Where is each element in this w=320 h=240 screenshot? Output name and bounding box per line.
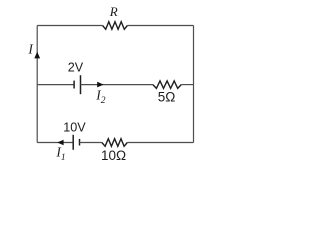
wire middle-right segment bbox=[181, 84, 193, 86]
resistor R bbox=[103, 22, 128, 30]
resistor 10 ohm bbox=[102, 139, 127, 147]
wire bottom-center segment bbox=[80, 142, 102, 144]
current arrow I (upward) bbox=[34, 52, 40, 59]
svg-text:I2: I2 bbox=[95, 87, 106, 106]
wire bottom-right segment bbox=[127, 142, 193, 144]
wire top-left segment bbox=[37, 25, 102, 27]
wire top-right segment bbox=[127, 25, 193, 27]
svg-text:10V: 10V bbox=[63, 121, 86, 135]
svg-text:10Ω: 10Ω bbox=[101, 148, 126, 163]
wire right side bbox=[193, 26, 195, 143]
wire left side bbox=[36, 26, 38, 143]
wire bottom-left segment bbox=[37, 142, 73, 144]
battery 2V short plate bbox=[73, 81, 75, 89]
current arrow I1 (leftward) bbox=[57, 140, 63, 146]
svg-text:I1: I1 bbox=[55, 144, 65, 163]
battery 10V short plate bbox=[79, 139, 81, 146]
wire middle-center segment bbox=[81, 84, 153, 86]
battery 10V long plate bbox=[72, 135, 74, 150]
svg-text:R: R bbox=[109, 4, 118, 19]
svg-text:5Ω: 5Ω bbox=[158, 90, 176, 105]
svg-text:2V: 2V bbox=[68, 61, 84, 75]
svg-text:I: I bbox=[27, 42, 34, 57]
resistor 5 ohm bbox=[153, 81, 181, 89]
battery 2V long plate bbox=[80, 75, 82, 94]
current arrow I2 (rightward) bbox=[97, 82, 103, 88]
wire middle-left segment bbox=[37, 84, 74, 86]
